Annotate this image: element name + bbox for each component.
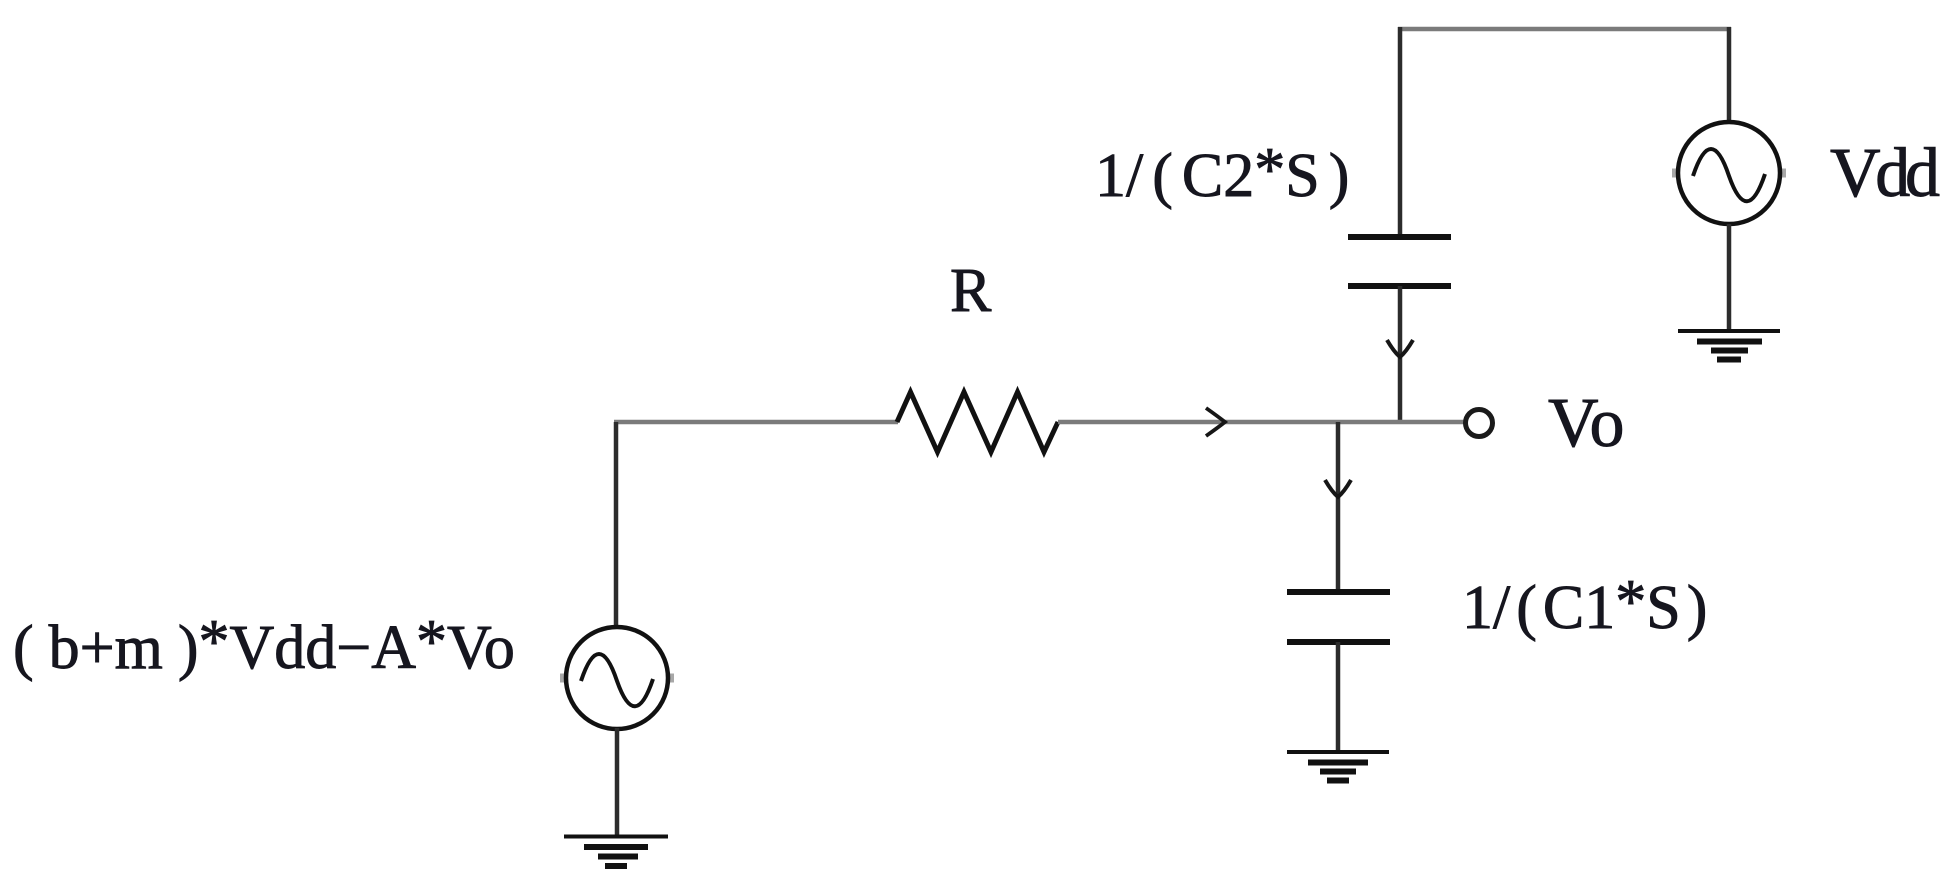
- wire C1 branch vertical from node: [1336, 422, 1341, 592]
- svg-text:1/(C2*S): 1/(C2*S): [1095, 136, 1349, 210]
- label node Vo: [1548, 385, 1625, 462]
- label capacitor C1 value 1/(C1*S): [1462, 568, 1707, 642]
- resistor R: [897, 392, 1058, 452]
- ground (C1): [1287, 752, 1389, 781]
- ground (left source): [564, 837, 668, 867]
- current arrow down on C1 branch: [1325, 480, 1351, 497]
- wire node Vo horizontal left lead: [614, 420, 898, 425]
- wire left source lower vertical: [615, 728, 620, 837]
- label capacitor C2 value 1/(C2*S): [1095, 136, 1349, 210]
- voltage source Vdd: [1672, 122, 1786, 224]
- wire C1 lower vertical to ground: [1336, 642, 1341, 752]
- svg-text:(b+m)*Vdd−A*Vo: (b+m)*Vdd−A*Vo: [13, 608, 515, 682]
- wire C2 lower vertical to node Vo: [1398, 286, 1403, 424]
- capacitor C2: [1348, 237, 1451, 286]
- svg-text:Vo: Vo: [1548, 385, 1625, 462]
- wire left vertical (source to node): [614, 422, 619, 628]
- wire Vdd lower vertical: [1727, 224, 1732, 331]
- label Vdd: [1830, 135, 1940, 212]
- svg-text:1/(C1*S): 1/(C1*S): [1462, 568, 1707, 642]
- terminal node Vo (open circle): [1466, 410, 1493, 437]
- current arrow down on C2 branch: [1387, 340, 1413, 357]
- svg-text:R: R: [950, 257, 992, 325]
- current arrow right on node wire: [1206, 408, 1225, 436]
- wire Vdd upper vertical: [1727, 27, 1732, 124]
- svg-text:Vdd: Vdd: [1830, 135, 1940, 212]
- label source value (b+m)*Vdd-A*Vo: [13, 608, 515, 682]
- wire C2 upper vertical: [1398, 27, 1403, 237]
- voltage source (b+m)*Vdd-A*Vo: [560, 627, 674, 729]
- wire node Vo horizontal right lead: [1058, 420, 1465, 425]
- ground (Vdd): [1678, 331, 1780, 360]
- label resistor R: [950, 257, 992, 325]
- wire top horizontal (C2 top to Vdd top): [1398, 27, 1731, 32]
- capacitor C1: [1287, 592, 1390, 642]
